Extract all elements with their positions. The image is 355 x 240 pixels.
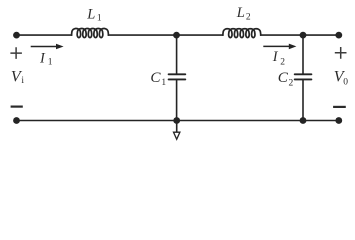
node dot output bottom [335,117,342,124]
node dot input top [13,32,20,39]
node dot output top [335,32,342,39]
capacitor C1 plates [169,74,186,79]
svg-text:L: L [236,5,245,21]
inductor L2 coil [223,29,261,38]
svg-text:1: 1 [48,57,53,67]
svg-text:2: 2 [280,58,285,68]
minus sign input [11,105,23,107]
svg-text:2: 2 [289,79,294,89]
node dot junction C2 top [300,32,307,39]
inductor L1 coil [72,29,109,38]
current arrow I1 [31,44,64,50]
wire top-middle segment [108,34,223,36]
capacitor C1 bottom lead [176,79,178,120]
svg-text:I: I [272,49,279,65]
node dot C2 bottom junction [300,117,307,124]
wire bottom rail [17,120,339,122]
svg-text:1: 1 [97,14,102,24]
svg-text:0: 0 [343,78,348,88]
plus sign input [10,47,22,59]
svg-text:i: i [21,76,24,86]
wire top-left segment [17,34,72,36]
node dot junction C1 top [173,32,180,39]
plus sign output [335,47,347,59]
svg-text:C: C [278,69,289,86]
capacitor C1 top lead [176,35,178,74]
svg-text:2: 2 [246,13,251,23]
current arrow I2 [263,44,296,50]
svg-text:I: I [39,51,46,67]
node dot ground junction [173,117,180,124]
ground lead [176,121,178,133]
wire top-right segment [261,34,339,36]
capacitor C2 bottom lead [302,79,304,120]
capacitor C2 plates [295,74,312,79]
svg-text:C: C [150,69,161,86]
svg-text:L: L [86,7,95,23]
ground symbol open arrow [174,132,180,139]
minus sign output [333,106,346,108]
capacitor C2 top lead [302,35,304,74]
svg-text:1: 1 [161,78,166,88]
node dot input bottom [13,117,20,124]
